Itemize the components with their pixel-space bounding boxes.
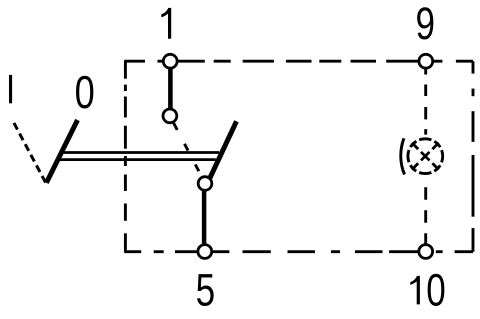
- svg-text:9: 9: [416, 0, 436, 49]
- svg-text:0: 0: [426, 264, 446, 315]
- svg-text:0: 0: [75, 66, 95, 118]
- svg-text:5: 5: [196, 264, 216, 315]
